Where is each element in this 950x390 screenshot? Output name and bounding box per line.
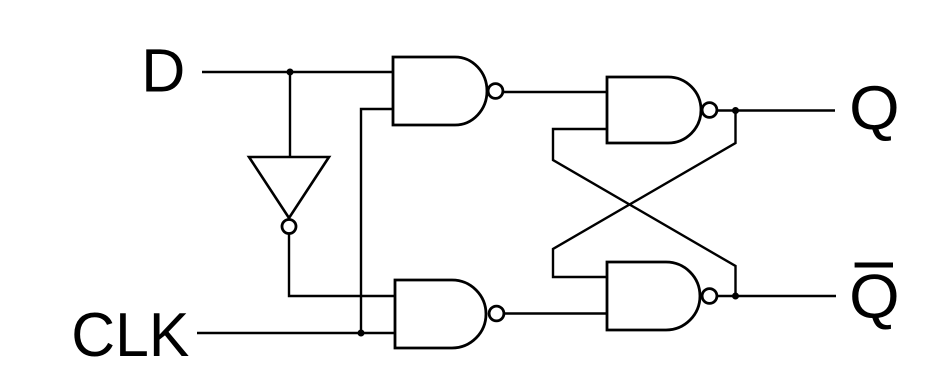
svg-text:D: D bbox=[141, 37, 185, 105]
nand U2 bbox=[607, 77, 717, 143]
wire D junction to inverter input bbox=[289, 72, 291, 157]
node D junction bbox=[287, 69, 294, 76]
nand U1 bbox=[393, 57, 503, 125]
node CLK junction bbox=[358, 330, 365, 337]
wire Q junction cross to U4 pin 1 bbox=[553, 111, 736, 277]
wire CLK junction to U1 pin 2 bbox=[361, 109, 394, 333]
nand U4 bbox=[607, 262, 717, 330]
wire D to U1 pin 1 bbox=[202, 71, 394, 73]
wire Qbar junction cross to U2 pin 2 bbox=[553, 129, 736, 296]
wire U2 output to Q bbox=[718, 109, 835, 111]
node Q junction bbox=[732, 107, 739, 114]
wire inverter output to U3 pin 1 bbox=[289, 235, 395, 297]
wire U1 output to U2 pin 1 bbox=[504, 91, 607, 93]
wire CLK to U3 pin 2 bbox=[197, 332, 396, 334]
svg-text:Q: Q bbox=[849, 74, 900, 143]
wire U4 output to Qbar bbox=[718, 295, 836, 297]
wire U3 output to U4 pin 2 bbox=[505, 312, 607, 314]
svg-text:Q: Q bbox=[849, 263, 900, 332]
svg-text:CLK: CLK bbox=[71, 301, 189, 370]
label Qbar bbox=[849, 263, 900, 332]
nand U3 bbox=[395, 280, 504, 348]
node Qbar junction bbox=[732, 293, 739, 300]
inverter U5 bbox=[249, 157, 329, 234]
